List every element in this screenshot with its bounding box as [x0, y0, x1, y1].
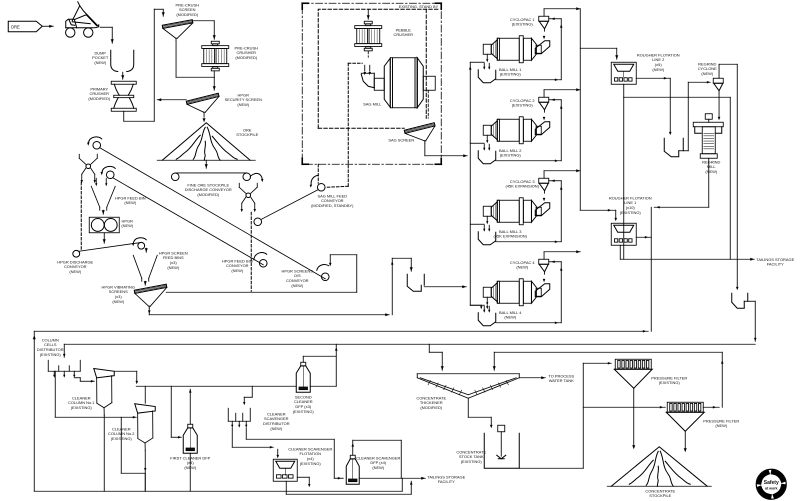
concentrate stock tank	[484, 425, 519, 468]
svg-text:CRUSHER: CRUSHER	[394, 32, 414, 37]
wire: second cleaner feed line	[136, 385, 296, 387]
wire: regrind mill discharge to cleaners	[708, 158, 710, 207]
wire: distributor to cleaner column 2	[54, 371, 56, 417]
wire: scavenger cell tails	[285, 481, 287, 494]
svg-text:(MODIFIED): (MODIFIED)	[420, 405, 443, 410]
wire: regrind overflow downcomer	[736, 64, 738, 288]
wire: column 2 tails drop	[144, 451, 146, 492]
wire: first cleaner DFP feed	[170, 386, 172, 437]
haul truck	[66, 2, 99, 38]
svg-text:STOCKPILE: STOCKPILE	[649, 493, 671, 498]
cyclopac 2 cyclone	[539, 97, 549, 120]
ball mill group 1: feed launder	[470, 62, 496, 83]
regrind cyclone	[713, 78, 723, 93]
wire: launder 4 to cyclone riser	[496, 322, 562, 324]
SAG mill	[361, 58, 435, 108]
svg-text:(NEW): (NEW)	[516, 265, 528, 270]
svg-text:EXISTING, STAND BY: EXISTING, STAND BY	[399, 4, 439, 9]
svg-text:(NEW): (NEW)	[124, 200, 136, 205]
wire: ore to truck	[42, 25, 53, 27]
wire: crusher discharge to riser	[123, 111, 125, 121]
wire: riser to pre-crush screen	[153, 9, 155, 121]
wire: distributor to scavenger DFP line	[245, 428, 247, 440]
wire: launder 2 to cyclone riser	[496, 160, 562, 162]
wire: cyclopac 2 feed	[549, 99, 562, 101]
svg-text:(MODIFIED, STANDBY): (MODIFIED, STANDBY)	[311, 203, 354, 208]
wire: cyclone overflow manifold	[579, 9, 581, 211]
svg-text:(NEW): (NEW)	[237, 102, 249, 107]
wire: crusher discharge to security screen	[213, 71, 215, 77]
wire: cyclopac 3 feed	[549, 180, 562, 182]
rougher flotation line 1 cell	[611, 223, 636, 245]
ball mill group 2: feed launder	[470, 143, 496, 164]
wire: second DFP overflow loop	[302, 356, 304, 362]
wire: cleaner feed downcomer	[650, 207, 652, 331]
battery limit dash-dot box EXISTING STAND BY	[302, 3, 441, 164]
inner dashed enclosure	[318, 9, 438, 128]
wire: scavenger cell concentrate out	[297, 476, 309, 478]
wire: filter 1 feed	[583, 362, 611, 364]
HPGR security screen	[186, 93, 219, 122]
wire: cleaner feed header	[34, 330, 648, 332]
pressure filter existing	[614, 359, 652, 388]
ball mill 1	[483, 36, 550, 63]
rougher flotation line 2 cell	[611, 62, 636, 84]
wire: cleaner recycle header	[64, 343, 755, 345]
ball mill group 3: feed launder	[470, 224, 496, 245]
wire: stock tank to filter feed riser	[519, 467, 583, 469]
wire: SAG mill discharge dashed to SAG screen	[427, 90, 429, 118]
svg-text:(NEW): (NEW)	[69, 269, 81, 274]
regrind feed chute	[664, 138, 688, 157]
svg-text:(EXISTING): (EXISTING)	[659, 380, 681, 385]
cyclopac 1 cyclone	[539, 16, 549, 39]
ball mill 3	[483, 198, 550, 225]
svg-text:(NEW): (NEW)	[372, 465, 384, 470]
wire: rougher 1 concentrate	[636, 236, 651, 238]
svg-text:(EXISTING): (EXISTING)	[40, 352, 62, 357]
wire: first DFP overflow up	[189, 389, 191, 424]
wire: chute to ball mill riser	[424, 286, 466, 288]
svg-text:WATER TANK: WATER TANK	[549, 378, 574, 383]
ore stockpile	[157, 123, 255, 161]
tripper 2	[239, 173, 263, 212]
wire: security screen oversize return	[157, 99, 186, 101]
wire: tripper2 dashed drop	[250, 212, 252, 291]
wire: tripper1 dashed bypass	[80, 182, 82, 250]
wire: left riser	[33, 331, 35, 491]
svg-text:(EXISTING): (EXISTING)	[300, 461, 322, 466]
ball mill 1 discharge chute	[535, 41, 550, 54]
wire: rougher 2 tails	[623, 84, 625, 97]
wire: tails drop right	[729, 97, 731, 259]
wire: chute to regrind cyclone	[687, 82, 689, 151]
ORE feed banner	[8, 21, 42, 32]
svg-text:STOCKPILE: STOCKPILE	[236, 132, 258, 137]
ball mill group 4: feed launder	[470, 305, 496, 326]
pebble crusher	[355, 21, 382, 51]
svg-text:(NEW): (NEW)	[121, 223, 133, 228]
wire: cyclopac 4 overflow	[543, 252, 545, 260]
wire: filter 2 cake drop	[684, 431, 686, 449]
wire: thickener overflow to process water	[519, 377, 545, 379]
svg-text:SAG SCREEN: SAG SCREEN	[388, 137, 414, 142]
wire: drop from second cleaner line into column 2	[144, 386, 146, 403]
dump pocket	[111, 50, 134, 79]
wire: thickener feed from recycle header	[428, 344, 430, 352]
svg-text:(NEW): (NEW)	[652, 67, 664, 72]
svg-text:(MODIFIED): (MODIFIED)	[176, 12, 199, 17]
wire: cyclopac 2 overflow	[543, 90, 545, 98]
cleaner column No.2	[135, 404, 156, 451]
svg-text:Safety: Safety	[764, 480, 779, 486]
second cleaner DFP	[296, 362, 310, 392]
regrind mill	[693, 114, 723, 159]
svg-text:(EXISTING): (EXISTING)	[620, 210, 642, 215]
wire: feed to pebble crusher	[367, 9, 369, 19]
svg-text:(EXISTING): (EXISTING)	[461, 459, 483, 464]
SAG feed conveyor tail pulley	[254, 218, 262, 226]
svg-text:FACILITY: FACILITY	[438, 479, 455, 484]
wire: regrind cyclone underflow to mill	[718, 93, 720, 117]
svg-text:SAG MILL: SAG MILL	[363, 101, 382, 106]
wire: chute to scavenger return line	[744, 300, 755, 302]
conveyor tail pulley C	[317, 265, 329, 281]
wire: recycle into column distributor	[63, 344, 65, 357]
svg-text:(MODIFIED): (MODIFIED)	[197, 192, 220, 197]
HPGR screen feed bins	[133, 255, 157, 285]
svg-text:(EXISTING): (EXISTING)	[293, 409, 315, 414]
wire: undersize riser to distribution chute	[391, 258, 393, 315]
wire: column 1 tails drop	[103, 415, 105, 491]
HPGR feed bin	[91, 178, 115, 214]
wire: screen undersize down	[175, 40, 177, 77]
primary crusher	[111, 81, 136, 111]
concentrate thickener	[417, 374, 519, 399]
svg-text:(NEW): (NEW)	[715, 423, 727, 428]
wire: bottom collector riser	[401, 478, 403, 491]
wire: screen oversize to pre-crush crusher	[192, 20, 214, 22]
wire: launder 1 to cyclone riser	[496, 79, 562, 81]
svg-text:ORE: ORE	[11, 24, 20, 29]
SAG screen	[404, 123, 435, 144]
first cleaner DFP	[183, 424, 197, 453]
ball mill feed chute	[407, 274, 424, 291]
wire: scavenger distributor feed	[251, 386, 253, 397]
dashed stub at SAG feed	[348, 62, 362, 64]
svg-text:(45K EXPANSION): (45K EXPANSION)	[506, 184, 540, 189]
logo	[756, 469, 786, 499]
ball mill 4	[483, 279, 550, 306]
wire: filter 1 cake drop	[633, 388, 635, 446]
wire: cyclopac 1 overflow	[543, 9, 545, 17]
svg-text:(EXISTING): (EXISTING)	[71, 405, 93, 410]
cleaner column No.1	[94, 368, 115, 415]
wire: filter 2 filtrate recycle	[703, 406, 719, 408]
svg-text:(NEW): (NEW)	[94, 60, 106, 65]
svg-text:(NEW): (NEW)	[701, 71, 713, 76]
svg-text:(MODIFIED): (MODIFIED)	[235, 55, 258, 60]
svg-text:FACILITY: FACILITY	[767, 262, 784, 267]
pressure filter new	[666, 402, 704, 431]
concentrate stockpile	[607, 447, 711, 487]
wire: HPGR discharge	[103, 233, 105, 244]
cleaner scavenger flotation cell	[273, 459, 297, 481]
svg-text:(MODIFIED): (MODIFIED)	[88, 96, 111, 101]
wire: cyclopac 1 feed	[549, 18, 562, 20]
pre-crush screen	[162, 20, 193, 41]
ball mill 2 discharge chute	[535, 122, 550, 135]
ball mill 2	[483, 117, 550, 144]
wire: rougher 1 tails	[619, 245, 621, 259]
svg-text:(NEW): (NEW)	[167, 265, 179, 270]
HPGR vibrating screens	[134, 284, 167, 308]
wire: regrind cyclone overflow	[718, 64, 720, 78]
wire: vibrating screens undersize line	[148, 308, 150, 315]
wire: overflow to rougher flotation line 1	[580, 209, 616, 211]
cyclopac 3 cyclone	[539, 178, 549, 201]
svg-text:(NEW): (NEW)	[504, 315, 516, 320]
SAG mill feed conveyor (standby)	[261, 128, 348, 219]
ball mill 3 discharge chute	[535, 203, 550, 216]
wire: launder 3 to cyclone riser	[496, 241, 562, 243]
wire: bottom tails collector	[34, 490, 402, 492]
svg-text:(NEW): (NEW)	[270, 426, 282, 431]
wire: scavenger tails to TSF	[359, 477, 425, 479]
wire: cyclopac 4 feed	[549, 261, 562, 263]
wire: filter 2 feed	[583, 406, 665, 408]
wire: overflow to rougher flotation line 2	[580, 47, 617, 49]
wire: filtrate return line	[494, 351, 722, 353]
wire: pebble crusher to SAG mill feed (dashed)	[367, 51, 369, 57]
wire: first DFP underflow	[189, 453, 191, 491]
wire: distributor to scavenger flotation	[231, 428, 233, 448]
svg-text:(NEW): (NEW)	[112, 299, 124, 304]
svg-text:(45K EXPANSION): (45K EXPANSION)	[494, 234, 528, 239]
conveyor: HPGR feed bin conveyor diagonal	[101, 166, 264, 264]
svg-text:(NEW): (NEW)	[231, 268, 243, 273]
HPGR discharge conveyor	[73, 238, 148, 257]
wire: scavenger DFP overflow loop	[352, 440, 354, 455]
wire: ball mill feed riser	[469, 62, 471, 305]
fine ore stockpile discharge conveyor	[171, 160, 250, 180]
conveyor tail pulley D	[254, 253, 267, 267]
wire: rougher 2 concentrate to regrind chute	[636, 77, 670, 79]
column cells distributor	[48, 360, 80, 378]
svg-text:(NEW): (NEW)	[705, 169, 717, 174]
svg-text:(EXISTING): (EXISTING)	[500, 153, 522, 158]
wire: thickener underflow to stock tank	[467, 398, 469, 417]
wire: distributor to cleaner column 1	[74, 377, 80, 379]
tripper 1	[79, 154, 97, 183]
wire: vibrating screens oversize loop	[166, 291, 357, 293]
conveyor: HPGR screens O/S to tripper 1 (long diagonal)	[87, 137, 325, 279]
svg-text:(NEW): (NEW)	[291, 283, 303, 288]
tails collection chute	[732, 293, 748, 308]
wire: column 1 overflow to second cleaner line	[114, 370, 137, 372]
cleaner scavenger distributor	[228, 408, 250, 428]
pre-crush crusher	[202, 41, 229, 71]
HPGR unit	[89, 217, 119, 233]
cleaner scavenger DFP	[346, 455, 359, 484]
wire: cyclopac 3 overflow	[543, 171, 545, 179]
svg-text:(EXISTING): (EXISTING)	[512, 103, 534, 108]
svg-text:(EXISTING): (EXISTING)	[512, 22, 534, 27]
svg-text:(EXISTING): (EXISTING)	[500, 72, 522, 77]
ball mill 4 discharge chute	[535, 284, 550, 297]
svg-text:at work: at work	[765, 486, 778, 490]
wire: truck to dump pocket	[100, 26, 112, 28]
wire: column recycle drops	[120, 417, 122, 473]
wire: SAG screen undersize to ball mill header	[424, 143, 426, 156]
wire: tailings line to TSF	[620, 258, 754, 260]
cyclopac 4 cyclone	[539, 259, 549, 282]
